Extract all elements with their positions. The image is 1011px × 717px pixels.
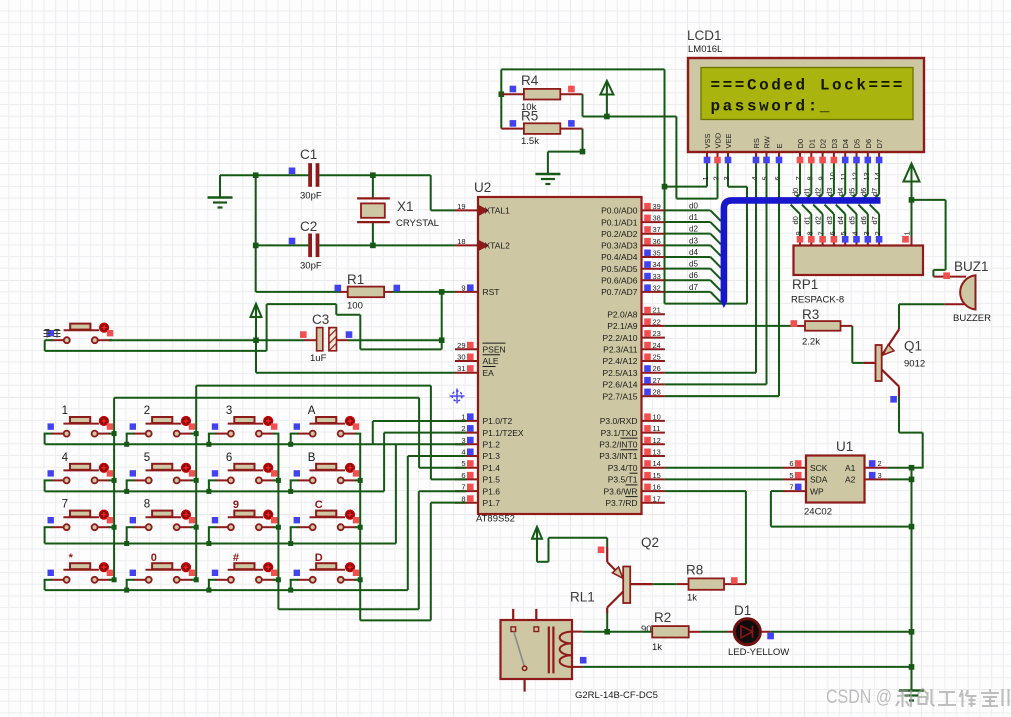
svg-text:P1.6: P1.6 <box>483 486 501 496</box>
svg-text:P1.7: P1.7 <box>483 498 501 508</box>
svg-text:3: 3 <box>862 231 871 235</box>
junction A2 <box>909 477 915 483</box>
LCD1 pin 5 RW <box>761 135 772 180</box>
svg-text:P1.4: P1.4 <box>483 463 501 473</box>
U2 pin 8 P1.7 <box>455 494 500 508</box>
svg-text:P2.1/A9: P2.1/A9 <box>607 321 638 331</box>
svg-text:d6: d6 <box>859 188 868 196</box>
U2 pin 33 P0.6/AD6 <box>601 272 665 286</box>
svg-text:P0.5/AD5: P0.5/AD5 <box>601 264 638 274</box>
svg-text:21: 21 <box>653 306 661 315</box>
LCD1 pin 9 D2 <box>817 139 828 181</box>
svg-text:P2.0/A8: P2.0/A8 <box>607 309 638 319</box>
U2 pin 5 P1.4 <box>455 459 500 473</box>
svg-text:5: 5 <box>761 176 770 180</box>
U2 pin 12 P3.2/INT0 <box>599 436 665 450</box>
wire net d4 (P0.4 to bus) <box>665 257 721 268</box>
U2 pin 27 P2.6/A14 <box>603 376 665 390</box>
svg-text:14: 14 <box>873 172 882 180</box>
U1 pin 2 A1 <box>845 459 888 473</box>
junction keypad row1 drop4 <box>288 442 293 447</box>
svg-text:23: 23 <box>653 329 661 338</box>
push-button SW 8 <box>130 510 196 530</box>
resistor R5 <box>501 120 582 134</box>
junction VCC arrow/row <box>604 114 610 120</box>
svg-text:P3.2/INT0: P3.2/INT0 <box>599 440 638 450</box>
junction RST/R1-right <box>439 289 445 295</box>
label fuwei (reset, CJK approximated) <box>44 329 61 338</box>
svg-text:2.2k: 2.2k <box>802 337 820 348</box>
junction relay bottom row <box>909 664 915 670</box>
U2 pin 14 P3.4/T0 <box>608 459 665 473</box>
svg-text:d1: d1 <box>802 216 811 224</box>
wire RP1 pin3 to bus (d6) <box>858 205 867 237</box>
svg-text:1k: 1k <box>687 593 697 604</box>
RP1 pin 8 <box>805 231 814 245</box>
svg-text:LM016L: LM016L <box>688 44 722 55</box>
svg-text:U1: U1 <box>836 439 853 454</box>
ground GND1 (crystal caps) <box>208 175 233 207</box>
U2 pin 25 P2.4/A12 <box>603 353 665 367</box>
wire RP1 pin2 to bus (d7) <box>870 205 879 237</box>
wire net BUZ1 bottom to Q1 emitter <box>899 304 945 327</box>
wire net keypad row 4 <box>44 580 408 590</box>
junction col1 row2 <box>112 478 117 483</box>
svg-text:PSEN: PSEN <box>483 345 506 355</box>
svg-text:38: 38 <box>653 214 661 223</box>
wire right main vertical (to ground) <box>911 468 913 690</box>
transistor Q1 (9012 PNP) <box>864 328 899 403</box>
svg-text:35: 35 <box>653 249 661 258</box>
svg-text:1uF: 1uF <box>310 353 327 364</box>
svg-text:d4: d4 <box>836 188 845 196</box>
svg-text:31: 31 <box>457 364 465 373</box>
svg-text:P2.5/A13: P2.5/A13 <box>603 368 638 378</box>
svg-text:LCD1: LCD1 <box>687 28 722 43</box>
svg-text:5: 5 <box>839 231 848 235</box>
wire net BUZ1 top feed <box>912 200 946 277</box>
RP1 pin 5 <box>839 231 848 245</box>
wire net keypad col4 vertical <box>359 434 361 621</box>
push-button SW 5 <box>130 464 196 484</box>
svg-text:39: 39 <box>653 202 661 211</box>
svg-text:9: 9 <box>794 231 803 235</box>
wire net U1 A2 <box>888 478 912 480</box>
U2 pin 21 P2.0/A8 <box>607 306 665 320</box>
svg-text:8: 8 <box>805 176 814 180</box>
wire net coil row (relay to R2) <box>582 631 652 633</box>
svg-text:P2.4/A12: P2.4/A12 <box>603 356 638 366</box>
junction col2 row1 <box>194 431 199 436</box>
svg-text:BUZ1: BUZ1 <box>954 259 989 274</box>
resistor R3 <box>791 320 853 331</box>
svg-text:d4: d4 <box>836 216 845 224</box>
push-button SW 2 <box>130 417 196 437</box>
svg-text:Q2: Q2 <box>641 535 659 550</box>
junction keypad row3 drop4 <box>288 541 293 546</box>
svg-text:P3.4/T0: P3.4/T0 <box>608 463 638 473</box>
transistor Q2 (9012 PNP, mirrored) <box>598 547 653 614</box>
svg-text:CSDN @: CSDN @ <box>826 686 892 708</box>
junction col2 row2 <box>194 478 199 483</box>
wire reset right stub <box>109 339 112 341</box>
wire net XTAL2 row / C2 row <box>256 244 455 246</box>
svg-text:d1: d1 <box>802 188 811 196</box>
wire net d7 (P0.7 to bus) <box>665 292 721 303</box>
svg-text:8: 8 <box>805 231 814 235</box>
LCD1 pin 3 VEE <box>722 133 733 180</box>
U1 pin 6 SCK <box>784 459 828 473</box>
svg-text:34: 34 <box>653 260 661 269</box>
svg-text:7: 7 <box>794 176 803 180</box>
junction keypad row2 drop4 <box>288 489 293 494</box>
wire LCD D1 to bus <box>802 164 811 204</box>
buzzer BUZ1 <box>933 272 975 309</box>
wire net Q2 base to R8 <box>653 583 677 585</box>
wire net VCC to Q2 emitter <box>537 538 607 562</box>
svg-text:27: 27 <box>653 376 661 385</box>
wire net XTAL1 row / C1 row <box>220 175 455 210</box>
U2 pin 3 P1.2 <box>455 436 500 450</box>
power VCC arrow (RP1) <box>911 164 913 200</box>
U2 pin 6 P1.5 <box>455 471 500 485</box>
svg-text:6: 6 <box>226 452 232 464</box>
svg-text:P2.7/A15: P2.7/A15 <box>603 391 638 401</box>
U2 pin 2 P1.1/T2EX <box>455 424 524 438</box>
svg-text:9012: 9012 <box>904 359 925 370</box>
svg-text:XTAL2: XTAL2 <box>485 241 511 251</box>
svg-text:25: 25 <box>653 353 661 362</box>
svg-text:d2: d2 <box>689 225 698 234</box>
wire net R4-top (VSS tie) <box>501 69 664 128</box>
svg-text:P2.2/A10: P2.2/A10 <box>603 333 638 343</box>
wire net P1.0 to keypad (pin1) <box>373 421 466 444</box>
svg-text:30pF: 30pF <box>300 191 322 202</box>
svg-text:R8: R8 <box>686 563 703 578</box>
svg-text:13: 13 <box>653 448 661 457</box>
svg-text:1: 1 <box>903 231 912 235</box>
U1 pin 5 SDA <box>784 471 828 485</box>
U2 pin 18 XTAL2 <box>455 237 510 251</box>
junction keypad row1 drop3 <box>206 442 211 447</box>
junction keypad row4 drop3 <box>206 588 211 593</box>
wire LCD D6 to bus <box>858 164 867 204</box>
U2 pin 11 P3.1/TXD <box>601 424 665 438</box>
junction col1 row3 <box>112 525 117 530</box>
svg-text:P0.2/AD2: P0.2/AD2 <box>601 229 638 239</box>
svg-text:3: 3 <box>722 176 731 180</box>
svg-text:U2: U2 <box>474 180 491 195</box>
crystal X1 <box>357 175 390 245</box>
wire net Q1 collector <box>899 397 923 469</box>
wire net d5 (P0.5 to bus) <box>665 269 721 280</box>
svg-text:d6: d6 <box>859 216 868 224</box>
svg-text:D6: D6 <box>864 139 873 149</box>
junction R4-left <box>499 91 505 97</box>
svg-text:VEE: VEE <box>724 133 733 148</box>
push-button SW 0 <box>130 563 196 583</box>
U2 pin 10 P3.0/RXD <box>600 412 665 426</box>
svg-text:P1.2: P1.2 <box>483 440 501 450</box>
svg-text:24: 24 <box>653 341 661 350</box>
svg-text:===Coded Lock===: ===Coded Lock=== <box>711 77 905 95</box>
LCD1 pin 2 VDD <box>712 132 723 180</box>
svg-text:RESPACK-8: RESPACK-8 <box>791 295 844 306</box>
svg-text:d5: d5 <box>689 260 698 269</box>
junction Q2 collector / coil row <box>604 629 610 635</box>
junction keypad row2 drop2 <box>124 489 129 494</box>
junction keypad row1 drop2 <box>124 442 129 447</box>
svg-text:RP1: RP1 <box>792 277 818 292</box>
wire LCD D5 to bus <box>847 164 856 204</box>
svg-text:d7: d7 <box>689 283 698 292</box>
svg-text:RL1: RL1 <box>570 590 595 605</box>
RP1 pin 6 <box>828 231 837 245</box>
svg-text:d7: d7 <box>870 216 879 224</box>
wire LCD control x=756 <box>665 164 756 373</box>
LCD1 pin 10 D3 <box>828 139 839 181</box>
svg-text:P1.3: P1.3 <box>483 451 501 461</box>
svg-text:B: B <box>308 452 316 464</box>
svg-text:d1: d1 <box>689 213 698 222</box>
svg-text:7: 7 <box>62 499 68 511</box>
push-button SW * <box>48 563 114 583</box>
svg-text:ALE: ALE <box>483 356 499 366</box>
wire RP1 pin4 to bus (d5) <box>847 205 856 237</box>
wire net P1.6 to keypad col3 (pin7) <box>278 491 466 609</box>
wire RP1 pin9 to bus (d0) <box>791 205 800 237</box>
relay RL1 body <box>501 620 573 679</box>
U2 pin 9 RST <box>455 283 500 297</box>
svg-text:C2: C2 <box>300 219 317 234</box>
wire RP1 pin5 to bus (d4) <box>836 205 845 237</box>
svg-text:d2: d2 <box>814 188 823 196</box>
svg-text:P3.3/INT1: P3.3/INT1 <box>599 451 638 461</box>
svg-text:28: 28 <box>653 388 661 397</box>
svg-text:A2: A2 <box>845 475 856 485</box>
push-button SW C <box>294 510 360 530</box>
svg-text:D1: D1 <box>734 603 751 618</box>
svg-text:P3.0/RXD: P3.0/RXD <box>600 416 638 426</box>
wire net d0 (P0.0 to bus) <box>665 210 721 221</box>
LCD1 pin 7 D0 <box>794 139 805 181</box>
svg-text:AT89S52: AT89S52 <box>476 514 515 525</box>
wire RP1 pin1 to VCC <box>911 200 913 237</box>
wire net VSS/VEE tie <box>665 69 748 303</box>
junction col3 row2 <box>276 478 281 483</box>
push-button RESET (复位) <box>48 323 114 343</box>
svg-text:15: 15 <box>653 471 661 480</box>
svg-text:D7: D7 <box>875 139 884 149</box>
svg-text:R5: R5 <box>521 109 538 124</box>
capacitor C2 <box>289 234 320 258</box>
svg-text:VSS: VSS <box>703 133 712 148</box>
LCD1 pin 1 VSS <box>701 133 712 180</box>
capacitor C1 <box>289 163 320 187</box>
svg-text:BUZZER: BUZZER <box>953 313 991 324</box>
wire net keypad row 2 <box>44 480 385 491</box>
svg-text:P0.0/AD0: P0.0/AD0 <box>601 206 638 216</box>
svg-text:37: 37 <box>653 225 661 234</box>
svg-text:18: 18 <box>457 237 465 246</box>
LCD1 pin 11 D4 <box>839 139 850 181</box>
wire net Q2 collector to relay row <box>606 613 608 632</box>
svg-text:d2: d2 <box>814 216 823 224</box>
resistor R2 <box>652 626 700 637</box>
svg-text:22: 22 <box>653 317 661 326</box>
svg-text:XTAL1: XTAL1 <box>485 206 511 216</box>
wire net keypad row3 riser <box>395 444 397 543</box>
resistor R1 <box>335 285 401 298</box>
junction keypad row3 drop2 <box>124 541 129 546</box>
svg-text:P0.6/AD6: P0.6/AD6 <box>601 276 638 286</box>
capacitor C3 (1uF electrolytic) <box>300 328 352 351</box>
svg-text:4: 4 <box>62 452 69 464</box>
svg-text:3: 3 <box>226 405 232 417</box>
wire net R2 to D1 <box>700 631 727 633</box>
svg-text:2: 2 <box>878 459 882 468</box>
svg-text:D3: D3 <box>830 139 839 149</box>
U2 pin 34 P0.5/AD5 <box>601 260 665 274</box>
wire net U1 A1 <box>888 467 912 469</box>
junction col2 row4 <box>194 577 199 582</box>
svg-text:SCK: SCK <box>810 463 828 473</box>
wire LCD control x=766.5 <box>665 164 767 385</box>
svg-text:11: 11 <box>839 173 848 181</box>
svg-text:d3: d3 <box>689 236 698 245</box>
wire net P3.4 to U1 SCK <box>665 467 784 469</box>
U2 pin 37 P0.2/AD2 <box>601 225 665 239</box>
svg-text:33: 33 <box>653 272 661 281</box>
U2 pin 19 XTAL1 <box>455 202 510 216</box>
svg-text:G2RL-14B-CF-DC5: G2RL-14B-CF-DC5 <box>575 690 658 701</box>
svg-text:5: 5 <box>144 452 150 464</box>
U2 pin 1 P1.0/T2 <box>455 412 513 426</box>
wire net P1.7 to keypad col4 (pin8) <box>360 503 466 621</box>
junction keypad row4 drop4 <box>288 588 293 593</box>
svg-text:36: 36 <box>653 237 661 246</box>
mcu U2 AT89S52 body <box>478 197 642 514</box>
svg-text:D0: D0 <box>796 139 805 149</box>
wire RP1 pin8 to bus (d1) <box>802 205 811 237</box>
svg-text:7: 7 <box>817 231 826 235</box>
push-button SW A <box>294 417 360 437</box>
wire net P1.1 to keypad row2 (pin2) <box>384 433 466 492</box>
svg-text:R3: R3 <box>802 307 819 322</box>
svg-text:1: 1 <box>62 405 68 417</box>
U2 pin 26 P2.5/A13 <box>603 364 665 378</box>
svg-text:7: 7 <box>789 483 793 492</box>
svg-text:E: E <box>775 143 784 148</box>
LCD1 pin 6 E <box>773 143 784 180</box>
LCD1 pin 14 D7 <box>873 139 884 181</box>
bus end taper <box>721 301 728 308</box>
U2 pin 4 P1.3 <box>455 448 500 462</box>
svg-text:12: 12 <box>851 172 860 180</box>
U2 pin 15 P3.5/T1 <box>608 471 665 485</box>
svg-text:X1: X1 <box>397 199 414 214</box>
ground GND3 (bottom right) <box>899 689 924 691</box>
U2 pin 31 EA <box>455 364 496 378</box>
LCD1 pin 13 D6 <box>862 139 873 181</box>
push-button SW # <box>212 563 278 583</box>
resistor R8 <box>677 577 746 590</box>
junction C1-left vertical <box>253 172 259 178</box>
wire net R8 to P3.6 <box>665 491 746 584</box>
svg-text:D4: D4 <box>841 139 850 149</box>
svg-text:P3.7/RD: P3.7/RD <box>605 498 637 508</box>
push-button SW 1 <box>48 417 114 437</box>
svg-text:2: 2 <box>712 176 721 180</box>
RP1 pin 3 <box>862 231 871 245</box>
svg-text:1: 1 <box>701 176 710 180</box>
svg-text:26: 26 <box>653 364 661 373</box>
wire net d3 (P0.3 to bus) <box>665 245 721 256</box>
wire net keypad col2 vertical <box>195 386 197 580</box>
wire net keypad col1 vertical <box>113 398 115 580</box>
svg-text:1k: 1k <box>652 642 662 653</box>
svg-text:P2.6/A14: P2.6/A14 <box>603 380 638 390</box>
wire reset left to bottom loop <box>45 340 53 351</box>
svg-text:3: 3 <box>878 471 882 480</box>
svg-text:C3: C3 <box>312 312 329 327</box>
junction X1 top <box>370 172 376 178</box>
power VCC arrow (reset) <box>255 304 257 340</box>
svg-text:Q1: Q1 <box>904 339 922 354</box>
junction VCC/reset row <box>253 337 259 343</box>
svg-text:d4: d4 <box>689 248 698 257</box>
wire net relay bottom row <box>582 666 911 668</box>
svg-text:d3: d3 <box>825 216 834 224</box>
svg-text:d5: d5 <box>848 216 857 224</box>
wire LCD D7 to bus <box>870 164 879 204</box>
svg-text:17: 17 <box>653 494 661 503</box>
junction col2 row3 <box>194 525 199 530</box>
svg-text:LED-YELLOW: LED-YELLOW <box>728 647 789 658</box>
svg-text:P1.1/T2EX: P1.1/T2EX <box>483 428 524 438</box>
wire RP1 pin7 to bus (d2) <box>813 205 822 237</box>
svg-text:4: 4 <box>750 176 759 180</box>
lcd screen <box>701 68 913 120</box>
wire left vertical (C1/C2/R1 common) <box>255 175 257 292</box>
junction R5-right <box>580 149 586 155</box>
svg-text:2: 2 <box>873 231 882 235</box>
relay RL1 internals <box>511 609 587 692</box>
junction col1 row4 <box>112 577 117 582</box>
svg-text:P1.0/T2: P1.0/T2 <box>483 416 513 426</box>
junction VSS tie <box>662 184 668 190</box>
push-button SW 7 <box>48 510 114 530</box>
svg-text:32: 32 <box>653 283 661 292</box>
wire net VDD feed to LCD pin2 <box>676 117 717 199</box>
svg-text:P0.4/AD4: P0.4/AD4 <box>601 252 638 262</box>
wire net U1 WP tie <box>771 491 912 526</box>
svg-text:D5: D5 <box>853 139 862 149</box>
wire net d6 (P0.6 to bus) <box>665 280 721 291</box>
U2 pin 36 P0.3/AD3 <box>601 237 665 251</box>
U2 pin 7 P1.6 <box>455 483 500 497</box>
wire net VCC row (R4-right) <box>583 94 677 116</box>
svg-text:12: 12 <box>653 436 661 445</box>
svg-text:C: C <box>315 499 323 511</box>
svg-text:C1: C1 <box>300 147 317 162</box>
wire net RST row <box>256 291 455 293</box>
junction col1 row1 <box>112 431 117 436</box>
svg-text:EA: EA <box>483 368 495 378</box>
svg-text:P0.3/AD3: P0.3/AD3 <box>601 241 638 251</box>
svg-text:RW: RW <box>763 135 772 148</box>
svg-text:password:_: password:_ <box>711 98 833 116</box>
